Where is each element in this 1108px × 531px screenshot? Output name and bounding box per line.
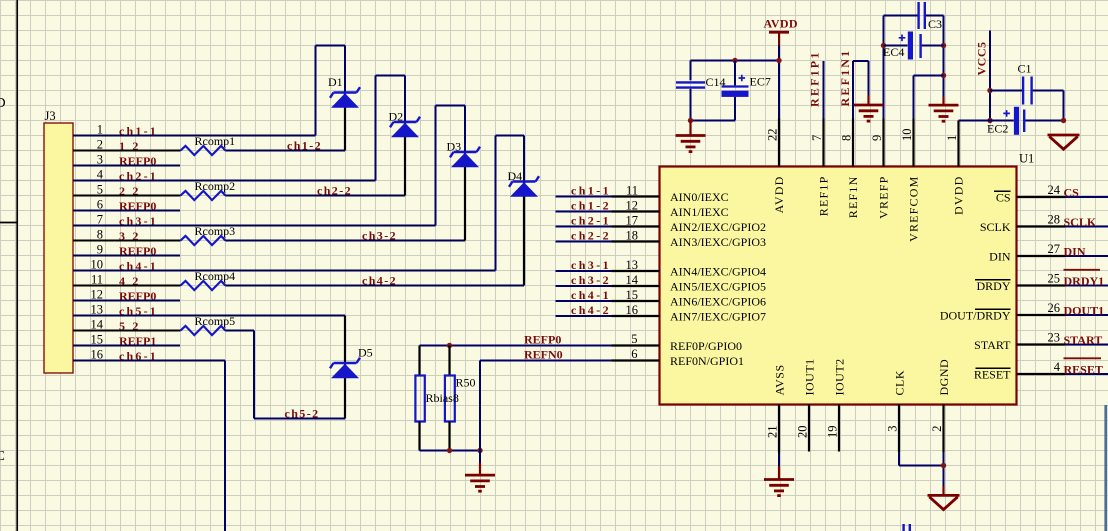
svg-text:J3: J3 — [45, 109, 56, 123]
svg-text:START: START — [974, 338, 1011, 352]
svg-text:6: 6 — [631, 347, 637, 361]
svg-text:ch4-1: ch4-1 — [571, 288, 611, 302]
svg-text:R50: R50 — [456, 376, 476, 390]
svg-text:13: 13 — [626, 258, 639, 272]
svg-text:DRDY: DRDY — [976, 279, 1010, 293]
svg-text:REF0N/GPIO1: REF0N/GPIO1 — [670, 354, 744, 368]
svg-text:28: 28 — [1048, 213, 1061, 227]
svg-text:AIN6/IEXC/GPIO6: AIN6/IEXC/GPIO6 — [670, 295, 766, 309]
svg-text:D3: D3 — [447, 140, 462, 154]
svg-text:AIN1/IEXC: AIN1/IEXC — [670, 205, 729, 219]
svg-text:AIN4/IEXC/GPIO4: AIN4/IEXC/GPIO4 — [670, 265, 766, 279]
svg-text:IOUT1: IOUT1 — [803, 358, 817, 395]
svg-text:D1: D1 — [328, 75, 343, 89]
svg-text:25: 25 — [1048, 272, 1061, 286]
svg-text:DIN: DIN — [989, 250, 1011, 264]
svg-text:11: 11 — [626, 184, 638, 198]
svg-text:DRDY1: DRDY1 — [1064, 274, 1105, 288]
svg-text:DOUT/DRDY: DOUT/DRDY — [940, 309, 1011, 323]
svg-text:3: 3 — [886, 426, 900, 432]
svg-text:REFP0: REFP0 — [524, 333, 561, 347]
svg-text:REF1P: REF1P — [817, 176, 831, 217]
svg-text:ch1-1: ch1-1 — [571, 183, 611, 197]
svg-text:AVDD: AVDD — [764, 17, 798, 31]
svg-text:15: 15 — [626, 288, 639, 302]
svg-text:19: 19 — [826, 426, 840, 439]
svg-text:C3: C3 — [928, 17, 942, 31]
svg-text:DOUT1: DOUT1 — [1064, 303, 1105, 317]
svg-text:VREFCOM: VREFCOM — [907, 176, 921, 242]
svg-text:VCC5: VCC5 — [975, 42, 989, 76]
svg-text:C1: C1 — [1018, 62, 1032, 76]
svg-text:D: D — [0, 96, 6, 111]
svg-text:ch1-2: ch1-2 — [571, 198, 611, 212]
svg-text:22: 22 — [766, 129, 780, 142]
svg-text:C: C — [0, 449, 5, 464]
svg-text:24: 24 — [1048, 183, 1061, 197]
svg-text:SCLK: SCLK — [980, 220, 1011, 234]
svg-text:ch5-2: ch5-2 — [285, 407, 320, 421]
svg-text:CS: CS — [1064, 185, 1080, 199]
svg-text:7: 7 — [810, 135, 824, 141]
svg-text:18: 18 — [626, 229, 639, 243]
svg-text:5: 5 — [631, 332, 637, 346]
svg-text:ch2-1: ch2-1 — [571, 213, 611, 227]
svg-text:D2: D2 — [389, 110, 404, 124]
svg-text:21: 21 — [766, 426, 780, 439]
svg-text:EC4: EC4 — [883, 45, 904, 59]
svg-text:AIN7/IEXC/GPIO7: AIN7/IEXC/GPIO7 — [670, 310, 766, 324]
svg-text:AVSS: AVSS — [773, 364, 787, 395]
svg-text:23: 23 — [1048, 331, 1061, 345]
svg-text:AIN5/IEXC/GPIO5: AIN5/IEXC/GPIO5 — [670, 280, 766, 294]
svg-text:DIN: DIN — [1064, 244, 1086, 258]
svg-text:EC7: EC7 — [750, 75, 771, 89]
svg-text:REF1P1: REF1P1 — [808, 50, 822, 107]
svg-text:D5: D5 — [358, 346, 373, 360]
svg-text:RESET: RESET — [974, 368, 1011, 382]
svg-text:AVDD: AVDD — [772, 176, 786, 214]
svg-text:AIN2/IEXC/GPIO2: AIN2/IEXC/GPIO2 — [670, 220, 766, 234]
svg-text:REF1N1: REF1N1 — [838, 49, 852, 107]
svg-text:ch2-2: ch2-2 — [317, 184, 352, 198]
svg-text:REF0P/GPIO0: REF0P/GPIO0 — [670, 339, 742, 353]
svg-text:ch4-2: ch4-2 — [571, 303, 611, 317]
svg-text:Rbias8: Rbias8 — [426, 391, 459, 405]
svg-text:DGND: DGND — [937, 359, 951, 396]
svg-text:10: 10 — [900, 129, 914, 142]
svg-text:14: 14 — [626, 273, 639, 287]
svg-text:26: 26 — [1048, 301, 1061, 315]
svg-text:AIN3/IEXC/GPIO3: AIN3/IEXC/GPIO3 — [670, 235, 766, 249]
svg-text:8: 8 — [840, 135, 854, 141]
svg-text:D4: D4 — [508, 169, 523, 183]
svg-text:AIN0/IEXC: AIN0/IEXC — [670, 190, 729, 204]
svg-text:16: 16 — [626, 303, 639, 317]
svg-text:9: 9 — [870, 135, 884, 141]
svg-text:VREFP: VREFP — [877, 176, 891, 219]
svg-text:27: 27 — [1048, 242, 1061, 256]
svg-text:CLK: CLK — [893, 370, 907, 396]
svg-text:REFN0: REFN0 — [524, 348, 563, 362]
svg-text:IOUT2: IOUT2 — [833, 358, 847, 395]
svg-text:12: 12 — [626, 199, 639, 213]
svg-text:ch3-1: ch3-1 — [571, 258, 611, 272]
svg-text:CS: CS — [996, 191, 1011, 205]
svg-text:U1: U1 — [1019, 152, 1034, 166]
svg-text:RESET: RESET — [1064, 362, 1103, 376]
svg-text:ch2-2: ch2-2 — [571, 228, 611, 242]
svg-text:20: 20 — [796, 426, 810, 439]
svg-text:ch3-2: ch3-2 — [362, 229, 397, 243]
svg-text:2: 2 — [930, 426, 944, 432]
svg-text:ch4-2: ch4-2 — [362, 274, 397, 288]
svg-text:EC2: EC2 — [987, 122, 1008, 136]
svg-text:START: START — [1064, 333, 1103, 347]
svg-text:REF1N: REF1N — [846, 176, 860, 219]
svg-text:SCLK: SCLK — [1064, 215, 1097, 229]
svg-text:1: 1 — [945, 135, 959, 141]
svg-text:ch1-2: ch1-2 — [287, 139, 322, 153]
svg-text:ch3-2: ch3-2 — [571, 273, 611, 287]
svg-text:17: 17 — [626, 214, 639, 228]
svg-text:4: 4 — [1054, 360, 1061, 374]
svg-text:DVDD: DVDD — [952, 176, 966, 215]
